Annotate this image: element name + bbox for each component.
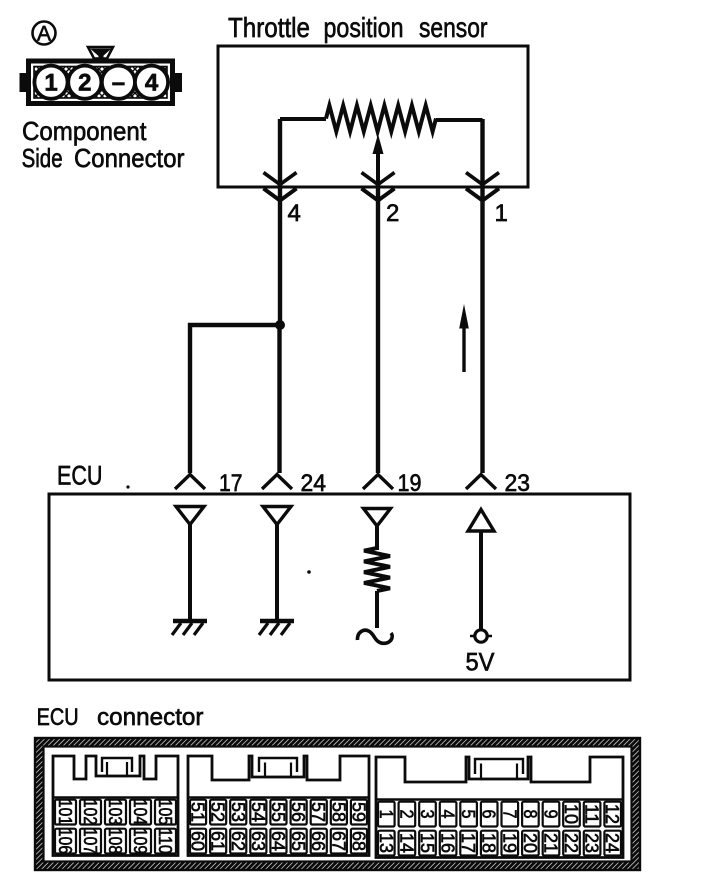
svg-text:17: 17 xyxy=(219,470,243,497)
svg-text:1: 1 xyxy=(495,200,508,227)
ECU internal input triangle pin 19 xyxy=(364,509,391,527)
block middle pin cells xyxy=(190,800,367,854)
svg-text:22: 22 xyxy=(561,833,582,853)
block right latch tab xyxy=(475,759,523,779)
wire: right lead of R1 to pin 1 drop xyxy=(436,118,483,122)
svg-text:sensor: sensor xyxy=(419,12,488,43)
svg-text:6: 6 xyxy=(479,810,500,819)
connector pin cavity 2 xyxy=(68,66,101,99)
svg-text:110: 110 xyxy=(155,828,176,854)
svg-text:position: position xyxy=(324,12,404,43)
svg-text:connector: connector xyxy=(97,704,204,731)
resistor R2 (pull-up inside ECU) xyxy=(364,548,390,591)
svg-text:13: 13 xyxy=(376,833,397,853)
ECU connector block left outline xyxy=(53,756,178,856)
svg-text:108: 108 xyxy=(105,828,126,854)
wire: sensor pin 4 down (VTA line) xyxy=(278,119,282,325)
svg-text:66: 66 xyxy=(308,831,329,851)
connector chevron, sensor pin 1 xyxy=(466,173,499,201)
continuation squiggle (circuit continues) xyxy=(357,630,392,643)
svg-text:54: 54 xyxy=(248,802,269,822)
svg-text:Throttle: Throttle xyxy=(228,12,310,43)
block left pin numbers xyxy=(55,799,176,854)
svg-text:10: 10 xyxy=(561,804,582,824)
svg-text:12: 12 xyxy=(602,804,623,824)
svg-text:4: 4 xyxy=(145,70,159,97)
svg-text:51: 51 xyxy=(188,802,209,822)
svg-text:104: 104 xyxy=(130,799,151,825)
ECU connector block middle outline xyxy=(188,756,369,856)
svg-text:Connector: Connector xyxy=(74,143,185,173)
connector pin cavity 4 xyxy=(135,66,168,99)
ECU connector label xyxy=(37,704,204,731)
throttle position sensor label xyxy=(228,12,488,43)
svg-text:103: 103 xyxy=(105,799,126,825)
connector chevron, ECU pin 19 xyxy=(363,475,393,490)
svg-text:59: 59 xyxy=(348,802,369,822)
svg-text:5: 5 xyxy=(458,810,479,819)
wire pin 23 to 5V source xyxy=(479,531,483,629)
svg-text:2: 2 xyxy=(386,200,399,227)
svg-text:62: 62 xyxy=(228,831,249,851)
svg-text:65: 65 xyxy=(288,831,309,851)
connector chevron, sensor pin 4 xyxy=(264,173,297,201)
ECU connector outer frame xyxy=(35,738,640,870)
svg-text:53: 53 xyxy=(228,802,249,822)
svg-text:Component: Component xyxy=(22,116,147,146)
svg-text:21: 21 xyxy=(541,833,562,853)
svg-text:67: 67 xyxy=(328,831,349,851)
svg-text:Side: Side xyxy=(22,143,63,173)
svg-text:4: 4 xyxy=(288,200,301,227)
svg-text:23: 23 xyxy=(582,833,603,853)
block middle latch tab xyxy=(259,758,297,777)
svg-text:68: 68 xyxy=(348,831,369,851)
svg-text:18: 18 xyxy=(479,833,500,853)
svg-text:ECU: ECU xyxy=(57,460,103,490)
svg-text:–: – xyxy=(112,70,125,97)
ECU connector block right outline xyxy=(376,757,623,858)
block middle pin numbers xyxy=(188,802,370,851)
svg-text:1: 1 xyxy=(376,810,397,819)
connector chevron, ECU pin 23 xyxy=(466,475,496,490)
svg-text:64: 64 xyxy=(268,831,289,851)
junction node on pin-4 wire xyxy=(275,320,285,330)
wire pin 17 to ground xyxy=(188,525,192,622)
svg-text:56: 56 xyxy=(288,802,309,822)
wire: sensor pin 1 down to ECU pin 23 xyxy=(480,119,484,473)
svg-text:11: 11 xyxy=(582,804,603,824)
svg-text:17: 17 xyxy=(458,833,479,853)
ground symbol (pin 24) xyxy=(259,621,294,635)
svg-text:16: 16 xyxy=(438,833,459,853)
svg-text:15: 15 xyxy=(417,833,438,853)
svg-text:9: 9 xyxy=(541,810,562,819)
block right pin cells xyxy=(378,802,621,856)
connector chevron, ECU pin 24 xyxy=(262,475,292,490)
ground symbol (pin 17) xyxy=(172,621,207,635)
5V supply terminal circle xyxy=(470,630,492,642)
svg-text:A: A xyxy=(37,23,51,46)
connector pin cavity dash xyxy=(102,66,135,99)
svg-text:106: 106 xyxy=(55,828,76,854)
svg-text:52: 52 xyxy=(208,802,229,822)
throttle position sensor box U1 xyxy=(218,46,528,187)
svg-text:24: 24 xyxy=(301,470,327,497)
svg-text:1: 1 xyxy=(44,70,57,97)
connector pin cavity 1 xyxy=(34,66,67,99)
svg-text:24: 24 xyxy=(602,833,623,853)
svg-text:58: 58 xyxy=(328,802,349,822)
wire below R2 xyxy=(375,591,379,628)
ECU internal output triangle pin 23 xyxy=(468,510,494,532)
block left pin cells xyxy=(55,800,176,854)
svg-text:107: 107 xyxy=(80,828,101,854)
svg-text:7: 7 xyxy=(499,810,520,819)
ECU internal input triangle pin 17 xyxy=(176,507,204,525)
scan speck inside ECU box xyxy=(307,570,311,574)
svg-text:20: 20 xyxy=(520,833,541,853)
svg-text:23: 23 xyxy=(505,470,531,497)
wire pin 24 to ground xyxy=(275,525,279,622)
wiper arrow of potentiometer xyxy=(373,134,384,187)
label: Component Side Connector xyxy=(22,116,185,173)
svg-text:105: 105 xyxy=(155,799,176,825)
svg-text:63: 63 xyxy=(248,831,269,851)
ECU box U2 xyxy=(49,494,630,680)
svg-text:101: 101 xyxy=(55,799,76,825)
svg-text:2: 2 xyxy=(78,70,91,97)
wire: left lead of R1 to pin 4 drop xyxy=(280,117,326,121)
svg-text:19: 19 xyxy=(398,470,422,497)
svg-text:5V: 5V xyxy=(466,649,495,677)
wire: branch left to ECU pin 17 xyxy=(190,325,280,473)
connector chevron, ECU pin 17 xyxy=(175,475,205,490)
svg-text:19: 19 xyxy=(499,833,520,853)
svg-text:57: 57 xyxy=(308,802,329,822)
svg-text:ECU: ECU xyxy=(37,704,79,731)
connector chevron, sensor pin 2 xyxy=(362,173,395,201)
wire pin 19 to resistor R2 xyxy=(375,526,379,550)
svg-text:8: 8 xyxy=(520,810,541,819)
svg-text:60: 60 xyxy=(188,831,209,851)
current direction arrow beside pin-1 wire xyxy=(459,304,469,372)
scan speck near ECU label xyxy=(126,485,129,488)
wire: sensor pin 2 down to ECU pin 19 xyxy=(376,185,380,473)
block left latch tab xyxy=(102,758,132,776)
svg-text:2: 2 xyxy=(396,810,417,819)
ECU internal input triangle pin 24 xyxy=(263,507,291,525)
svg-text:55: 55 xyxy=(268,802,289,822)
block right pin numbers xyxy=(376,804,623,853)
svg-text:14: 14 xyxy=(396,833,417,853)
svg-text:102: 102 xyxy=(80,799,101,825)
svg-text:109: 109 xyxy=(130,828,151,854)
potentiometer R1 (sensor track) xyxy=(326,106,436,132)
component side connector body xyxy=(20,47,183,104)
node A : circled connector label xyxy=(33,22,56,46)
svg-text:4: 4 xyxy=(438,810,459,819)
svg-text:61: 61 xyxy=(208,831,229,851)
svg-text:3: 3 xyxy=(417,810,438,819)
